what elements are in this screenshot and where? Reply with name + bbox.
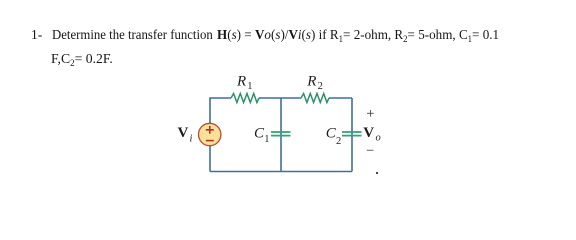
period dot after circuit — [376, 172, 378, 174]
svg-text:o: o — [376, 133, 381, 144]
capacitor C2 — [342, 132, 362, 136]
wire: top-right segment from R2 to right branch corner — [329, 97, 352, 99]
svg-text:R: R — [306, 73, 316, 89]
svg-text:R: R — [236, 73, 246, 89]
wire: middle vertical branch through C1 — [280, 98, 282, 172]
svg-text:i: i — [190, 133, 193, 144]
svg-text:+: + — [366, 106, 374, 122]
wire: left vertical below source — [209, 146, 211, 172]
svg-text:2: 2 — [336, 136, 341, 147]
svg-text:2: 2 — [318, 81, 323, 92]
svg-text:V: V — [178, 125, 189, 141]
resistor R2 — [301, 94, 329, 103]
wire: bottom wire — [210, 171, 352, 173]
problem statement line 2 — [51, 52, 113, 66]
wire: right vertical branch through C2 — [351, 98, 353, 172]
resistor R1 — [231, 94, 259, 103]
svg-text:1: 1 — [264, 134, 269, 145]
voltage source Vi — [199, 123, 221, 145]
svg-text:−: − — [366, 143, 374, 159]
wire: top-left segment from source top to R1 — [210, 98, 231, 123]
svg-text:V: V — [363, 125, 374, 141]
svg-text:1: 1 — [247, 81, 252, 92]
wire: top segment between R1 and R2 — [259, 97, 301, 99]
capacitor C1 — [271, 132, 291, 136]
problem statement line 1 — [31, 28, 42, 42]
